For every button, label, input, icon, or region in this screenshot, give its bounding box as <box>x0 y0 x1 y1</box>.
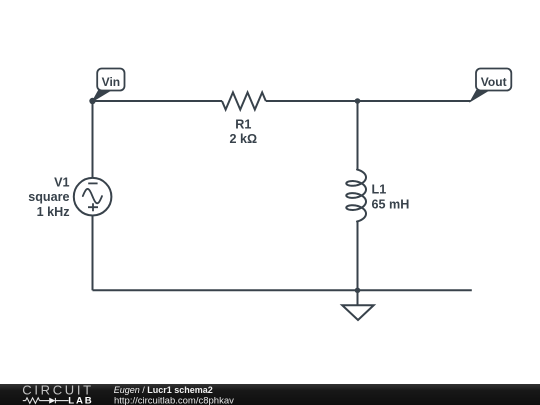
logo resistor zigzag <box>26 398 40 404</box>
logo wire left <box>23 400 26 402</box>
Vin flag box <box>97 69 124 91</box>
logo wire right <box>55 400 68 402</box>
svg-text:65 mH: 65 mH <box>372 197 410 211</box>
voltage source V1 minus sign <box>88 182 97 184</box>
wire: middle branch from inductor L1 down to bottom rail <box>357 222 359 291</box>
svg-text:2 kΩ: 2 kΩ <box>229 132 257 146</box>
svg-text:http://circuitlab.com/c8phkav: http://circuitlab.com/c8phkav <box>114 395 234 405</box>
svg-text:L1: L1 <box>372 182 387 196</box>
voltage source V1 circle <box>74 178 112 216</box>
svg-text:Vout: Vout <box>481 75 507 89</box>
voltage source V1 plus sign <box>88 203 98 211</box>
logo wire mid <box>40 400 50 402</box>
wire: left rail bottom (V1 bottom to bottom rail) <box>92 216 94 291</box>
wire: middle branch from top rail junction down to inductor L1 <box>357 101 359 170</box>
logo diode triangle <box>49 398 55 404</box>
svg-text:Eugen / Lucr1 schema2: Eugen / Lucr1 schema2 <box>114 385 213 395</box>
voltage source V1 sine waveform <box>83 189 102 203</box>
resistor R1 zigzag <box>222 92 266 109</box>
node: top rail / inductor junction dot <box>355 98 361 104</box>
ground stem <box>357 290 359 305</box>
node: Vin junction dot <box>89 98 95 104</box>
svg-text:R1: R1 <box>235 118 251 132</box>
inductor L1 coil <box>346 170 366 222</box>
ground triangle <box>342 305 374 320</box>
svg-text:Vin: Vin <box>102 75 120 89</box>
wire: bottom rail <box>93 289 472 291</box>
wire: top rail from Vin node to resistor R1 <box>93 100 223 102</box>
node: bottom rail / ground junction dot <box>355 288 361 294</box>
wire: top rail from resistor R1 to Vout tip <box>266 100 471 102</box>
wire: left rail top (Vin node down to V1 top) <box>92 101 94 178</box>
svg-text:LAB: LAB <box>68 396 91 405</box>
Vout flag box <box>476 69 511 91</box>
svg-text:square: square <box>28 190 69 204</box>
Vin flag pointer triangle <box>93 91 111 102</box>
svg-text:1 kHz: 1 kHz <box>37 205 70 219</box>
svg-text:V1: V1 <box>54 175 69 189</box>
logo diode bar <box>54 398 56 403</box>
Vout flag pointer triangle <box>471 91 489 102</box>
